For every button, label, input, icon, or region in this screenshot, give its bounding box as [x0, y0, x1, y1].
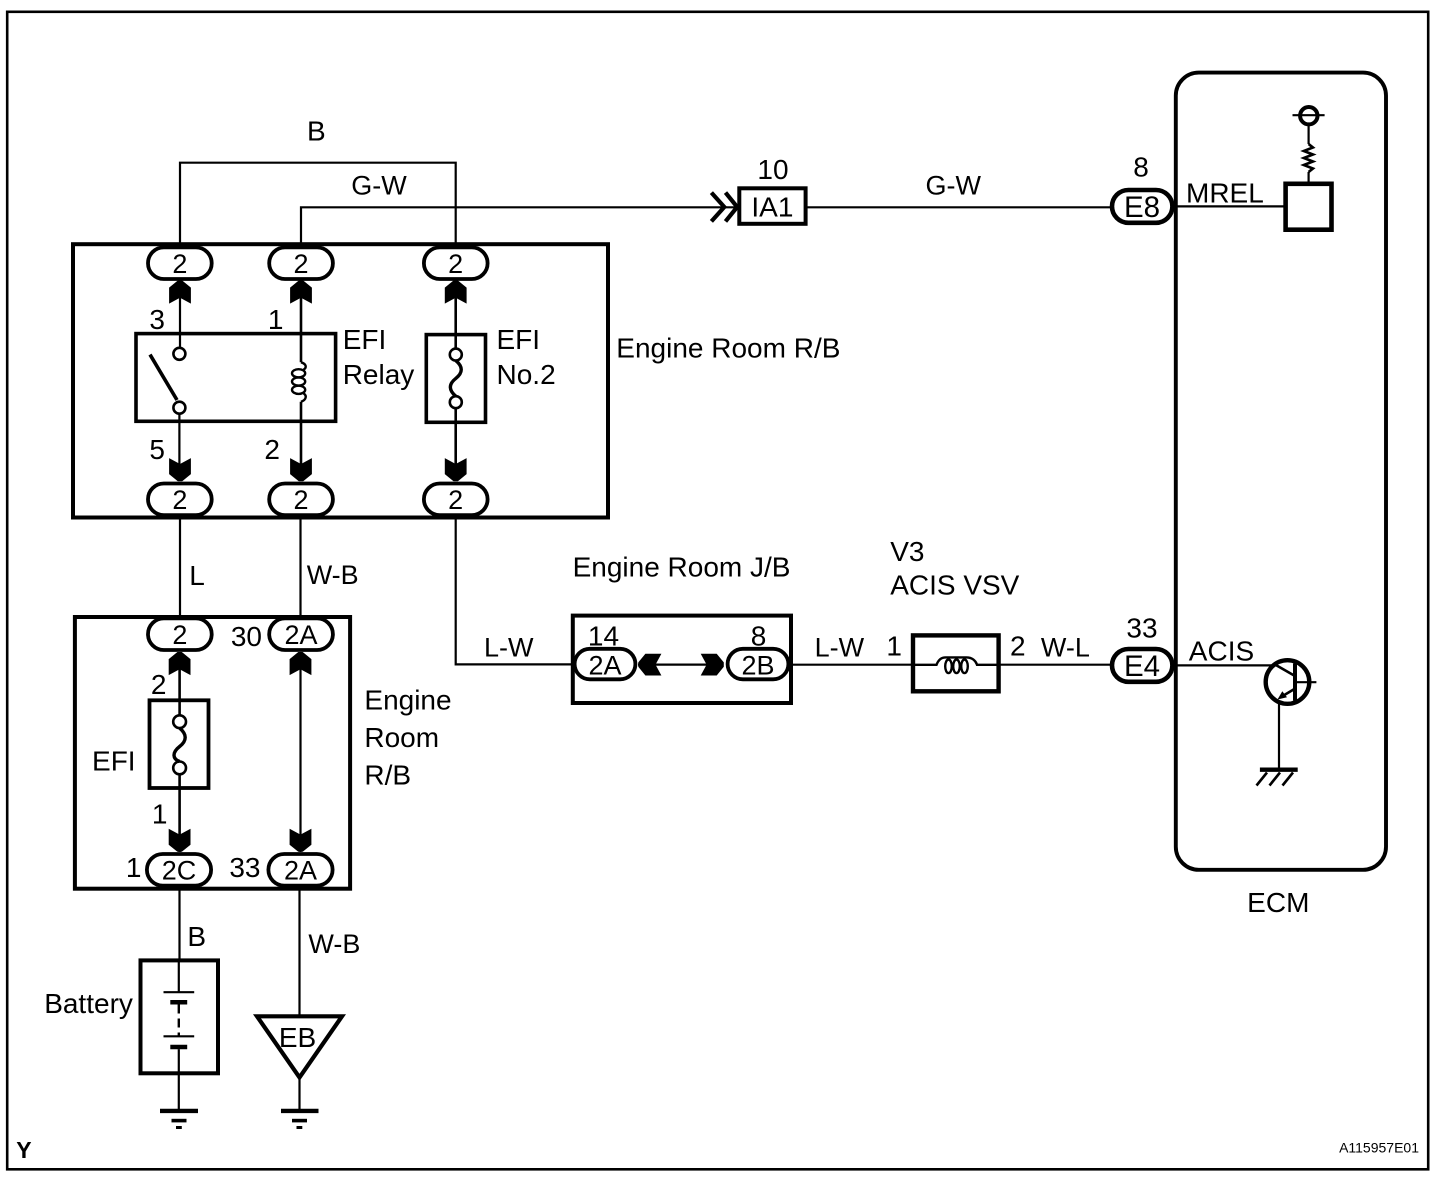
ground point EB	[257, 1016, 342, 1077]
label V3 / ACIS VSV	[890, 536, 1019, 601]
svg-text:2: 2	[172, 485, 187, 515]
wire L-W from EFI No.2 to J/B	[456, 517, 573, 665]
fuse EFI No.2 box	[426, 335, 485, 423]
svg-text:Room: Room	[364, 722, 439, 753]
svg-text:Engine: Engine	[364, 685, 451, 716]
svg-text:2: 2	[172, 249, 187, 279]
connector 2B (J/B right)	[728, 649, 789, 681]
up arrow	[290, 652, 312, 675]
connector 2 (top left)	[148, 247, 212, 279]
svg-text:L-W: L-W	[815, 633, 865, 663]
Engine Room R/B (lower) box	[75, 617, 350, 889]
svg-text:E8: E8	[1124, 191, 1160, 224]
crossover chevrons into IA1	[711, 193, 737, 222]
svg-text:1: 1	[268, 304, 284, 335]
svg-text:Battery: Battery	[44, 988, 133, 1019]
wire L-W from 2B to VSV	[788, 664, 913, 666]
svg-text:2B: 2B	[741, 651, 774, 681]
wire L	[179, 517, 181, 618]
label EFI Relay	[343, 324, 415, 390]
svg-text:1: 1	[152, 799, 168, 830]
svg-text:Y: Y	[16, 1137, 31, 1163]
wire battery to ground	[178, 1073, 180, 1111]
down arrow	[290, 829, 312, 852]
connector IA1	[739, 188, 805, 224]
left arrow	[638, 654, 661, 676]
wire 2A to 2A	[299, 652, 301, 852]
relay switch contacts	[173, 348, 185, 414]
down arrow	[169, 458, 191, 481]
svg-text:IA1: IA1	[751, 192, 793, 223]
relay EFI Relay box	[136, 334, 336, 422]
svg-text:2: 2	[293, 249, 308, 279]
wire EFI No.2 bottom	[454, 408, 457, 481]
fuse EFI No.2 element	[450, 349, 462, 409]
right arrow	[701, 654, 724, 676]
svg-text:EFI: EFI	[343, 324, 387, 355]
wire coil to bottom pin 2	[300, 402, 303, 481]
svg-text:14: 14	[588, 620, 619, 651]
battery box	[141, 960, 219, 1073]
wire EFI No.2 top	[454, 281, 457, 349]
svg-text:8: 8	[1133, 152, 1149, 183]
wire EFI fuse top	[178, 652, 181, 715]
label EFI No.2	[497, 324, 556, 390]
svg-text:1: 1	[126, 852, 142, 883]
svg-text:2C: 2C	[162, 855, 197, 885]
svg-text:EB: EB	[279, 1022, 316, 1053]
wire resistor to switch contact	[1307, 125, 1309, 145]
ignition feed contact (circle with bar)	[1293, 107, 1325, 124]
svg-text:W-B: W-B	[307, 560, 359, 590]
VSV coil	[913, 657, 999, 673]
svg-text:Engine Room R/B: Engine Room R/B	[616, 332, 840, 363]
svg-text:2A: 2A	[588, 651, 621, 681]
connector E4	[1112, 649, 1172, 683]
down arrow	[445, 458, 467, 481]
svg-text:EFI: EFI	[497, 324, 541, 355]
connector 2 (bottom middle)	[269, 484, 333, 516]
svg-text:E4: E4	[1124, 650, 1160, 683]
svg-text:L: L	[189, 560, 205, 591]
connector 2 (lower R/B top)	[148, 618, 212, 650]
connector 2A (J/B left)	[575, 649, 636, 681]
svg-text:8: 8	[751, 620, 767, 651]
svg-text:MREL: MREL	[1186, 178, 1264, 209]
wire EB to ground	[298, 1076, 300, 1111]
svg-text:30: 30	[231, 621, 262, 652]
connector 2A (lower R/B bottom)	[268, 854, 332, 886]
svg-text:Engine Room J/B: Engine Room J/B	[573, 552, 791, 583]
svg-text:Relay: Relay	[343, 359, 415, 390]
connector 2 (bottom right)	[424, 484, 488, 516]
fuse EFI element	[173, 715, 186, 774]
connector 2 (bottom left)	[148, 484, 212, 516]
wire G-W from relay coil pin 1 to IA1	[301, 207, 737, 246]
svg-text:2A: 2A	[284, 855, 317, 885]
wire EFI fuse bottom	[178, 774, 181, 852]
svg-text:No.2: No.2	[497, 359, 556, 390]
svg-text:2: 2	[1010, 630, 1026, 661]
wire W-B	[299, 517, 301, 618]
svg-text:33: 33	[1126, 612, 1157, 643]
label Engine Room R/B (lower)	[364, 685, 451, 791]
svg-text:2: 2	[448, 249, 463, 279]
wire relay switch pin 3	[179, 281, 181, 348]
svg-text:V3: V3	[890, 536, 924, 567]
up arrow	[445, 281, 467, 304]
wire W-B to EB	[298, 886, 300, 1016]
svg-text:2: 2	[448, 485, 463, 515]
svg-text:B: B	[187, 921, 206, 952]
up arrow	[169, 652, 191, 675]
ground (EB)	[281, 1111, 319, 1128]
down arrow	[290, 458, 312, 481]
svg-text:L-W: L-W	[484, 632, 534, 662]
svg-text:2: 2	[264, 434, 280, 465]
svg-text:5: 5	[149, 434, 165, 465]
svg-text:2: 2	[151, 669, 167, 700]
MREL driver block	[1286, 184, 1332, 230]
connector E8	[1112, 190, 1172, 224]
relay switch arm	[150, 355, 177, 400]
fuse EFI box	[150, 700, 209, 788]
svg-text:W-B: W-B	[308, 929, 360, 959]
wire to resistor	[1307, 172, 1309, 184]
svg-text:G-W: G-W	[926, 171, 982, 201]
ground (battery)	[160, 1111, 198, 1128]
svg-text:3: 3	[149, 304, 165, 335]
ECM box	[1176, 73, 1386, 870]
connector 2 (top right)	[424, 247, 488, 279]
ground (ECM internal)	[1257, 770, 1298, 786]
svg-text:ACIS VSV: ACIS VSV	[890, 570, 1019, 601]
svg-text:1: 1	[886, 630, 902, 661]
battery cells	[164, 960, 195, 1073]
transistor ACIS driver	[1266, 660, 1317, 704]
wire G-W from IA1 to E8	[806, 206, 1112, 208]
wire between 2A and 2B	[638, 663, 724, 665]
svg-text:33: 33	[229, 852, 260, 883]
svg-text:G-W: G-W	[351, 171, 407, 201]
svg-text:10: 10	[757, 154, 788, 185]
connector 2 (top middle)	[269, 247, 333, 279]
down arrow	[169, 829, 191, 852]
svg-text:ECM: ECM	[1247, 887, 1309, 918]
svg-text:B: B	[307, 116, 326, 147]
up arrow	[290, 281, 312, 304]
wire B to battery	[178, 886, 180, 960]
wire relay coil pin 1	[300, 281, 303, 362]
solenoid V3 ACIS VSV box	[913, 635, 999, 691]
resistor (ECM pull-up)	[1304, 144, 1313, 172]
wire emitter to ground	[1278, 702, 1280, 769]
relay coil	[292, 362, 306, 401]
connector 2A (lower R/B top)	[269, 618, 333, 650]
Engine Room R/B (upper) box	[73, 244, 608, 517]
svg-text:2: 2	[172, 620, 187, 650]
up arrow	[169, 281, 191, 304]
wire B top loop	[180, 163, 456, 246]
svg-text:W-L: W-L	[1041, 632, 1090, 662]
svg-text:A115957E01: A115957E01	[1339, 1140, 1419, 1156]
svg-text:2A: 2A	[284, 620, 317, 650]
svg-text:R/B: R/B	[364, 760, 411, 791]
wire switch to bottom	[178, 414, 180, 481]
wire MREL inside ECM	[1176, 205, 1286, 207]
wire W-L from VSV to E4	[999, 664, 1112, 666]
connector 2C	[147, 854, 211, 886]
svg-text:EFI: EFI	[92, 745, 136, 776]
Engine Room J/B box	[573, 616, 791, 703]
wire ACIS inside ECM	[1176, 664, 1278, 666]
svg-text:2: 2	[293, 485, 308, 515]
svg-text:ACIS: ACIS	[1189, 635, 1254, 666]
